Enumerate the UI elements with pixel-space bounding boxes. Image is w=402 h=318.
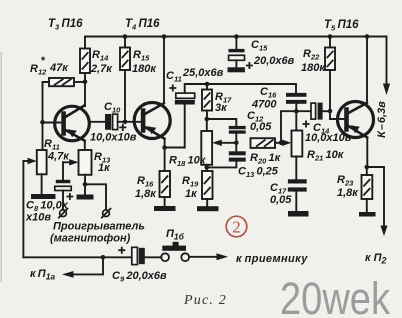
svg-text:20wek: 20wek <box>280 273 390 318</box>
wire R13 bottom to ground node <box>84 175 86 195</box>
wire R12 left to base node <box>43 82 50 122</box>
svg-text:С15: С15 <box>251 39 268 53</box>
wire T5 collector to rail <box>366 37 368 103</box>
svg-text:R21 10к: R21 10к <box>307 149 345 163</box>
wire C13 top to wiper node <box>235 143 237 152</box>
svg-text:R23: R23 <box>337 174 354 188</box>
wire T4 emitter to R16 <box>164 148 166 172</box>
svg-text:4700: 4700 <box>251 99 277 111</box>
node C14/R22 <box>328 109 333 114</box>
wire R18 bottom to node <box>206 165 208 171</box>
node к П1а branch <box>101 255 106 260</box>
node R20/R21 wiper <box>279 141 284 146</box>
wire T5 emitter to node <box>366 138 368 168</box>
wire C11 top to R17/C16 line <box>185 84 296 93</box>
switch П1б <box>161 228 189 261</box>
node C16 bottom / R21 top <box>294 109 299 114</box>
resistor R15 180к <box>120 48 157 76</box>
node T3 base <box>40 120 45 125</box>
resistor R19 1к <box>182 171 213 200</box>
resistor R14 2,7к <box>80 49 113 76</box>
wire C8 bottom to terminal 1 <box>62 191 64 210</box>
node R13 ground branch <box>83 182 88 187</box>
svg-text:0,05: 0,05 <box>270 194 292 206</box>
wire T4 collector to rail <box>163 37 165 104</box>
svg-text:R22: R22 <box>303 48 320 62</box>
node R17/R18/C12 <box>205 117 210 122</box>
scan edge line <box>1 52 2 282</box>
wire C8 top to R13 wiper <box>62 162 64 180</box>
wire node to C12 <box>207 119 237 126</box>
wire node to C13 bottom <box>207 162 237 168</box>
svg-text:2: 2 <box>232 218 241 237</box>
wire T3 emitter to R13 <box>84 141 86 150</box>
svg-text:к П2: к П2 <box>365 252 387 266</box>
svg-text:К – 6,3в: К – 6,3в <box>376 101 388 138</box>
ground bar under R19 <box>197 206 219 211</box>
ground bar under C17 <box>288 211 309 217</box>
wire C15 top to rail <box>235 37 237 49</box>
node T4 emitter <box>162 145 167 150</box>
node: rail junction R22 <box>328 34 333 39</box>
wire R12 right to collector line <box>74 81 85 83</box>
node: rail junction C15 <box>234 34 239 39</box>
wire C9 to switch <box>145 256 162 258</box>
resistor R16 1,8к <box>135 171 170 200</box>
svg-text:R18 10к: R18 10к <box>169 155 207 169</box>
svg-text:Рис. 2: Рис. 2 <box>183 293 227 308</box>
wire C14 right to T5 base line <box>323 110 330 112</box>
svg-text:1к: 1к <box>98 162 111 174</box>
capacitor C13 0,25 <box>229 151 279 179</box>
svg-text:10,0х10в: 10,0х10в <box>90 132 137 144</box>
svg-text:С9 20,0х6в: С9 20,0х6в <box>112 270 167 284</box>
capacitor C9 20,0х6в <box>112 247 167 284</box>
capacitor C8 10,0х10в <box>25 180 73 224</box>
ground bar under R16 <box>154 206 176 211</box>
svg-text:R14: R14 <box>92 49 109 63</box>
wire and arrow к П1а <box>72 257 103 274</box>
transistor T3 П16 <box>43 105 90 140</box>
svg-text:25,0х6в: 25,0х6в <box>182 67 224 79</box>
resistor R20 1к <box>250 138 282 165</box>
svg-text:С10: С10 <box>104 101 121 115</box>
wire R18 top <box>206 119 208 131</box>
wire C15 to ground <box>235 60 237 67</box>
wire R14 to T3 collector <box>84 73 86 106</box>
capacitor C17 0,05 <box>270 179 307 206</box>
svg-text:R16: R16 <box>137 175 154 189</box>
ground bar under R11 <box>31 194 56 199</box>
svg-text:х10в: х10в <box>25 212 51 224</box>
svg-text:R11: R11 <box>44 138 60 152</box>
wire node up to C14 line <box>281 111 311 143</box>
svg-text:1,8к: 1,8к <box>135 188 157 200</box>
capacitor C14 10,0х10в <box>303 103 352 144</box>
svg-text:R20 1к: R20 1к <box>250 152 282 166</box>
wire T3 collector to C10 <box>90 121 106 123</box>
svg-text:Т5 П16: Т5 П16 <box>324 19 359 33</box>
wire R11 bottom to ground <box>41 174 43 194</box>
wire R23 to ground <box>366 199 368 212</box>
capacitor C12 0,05 <box>229 110 272 134</box>
wiper arrow into R11 <box>23 160 28 162</box>
wire R21 top <box>295 111 297 130</box>
svg-text:R19: R19 <box>182 175 199 189</box>
wire C16 bottom to node <box>295 104 297 111</box>
wire R19 to ground <box>206 199 208 206</box>
svg-text:2,7к: 2,7к <box>90 63 113 75</box>
terminal 1 (player) <box>58 208 68 218</box>
svg-text:4,7к: 4,7к <box>47 151 70 163</box>
svg-text:20,0х6в: 20,0х6в <box>253 55 295 67</box>
svg-text:Т4 П16: Т4 П16 <box>125 18 160 32</box>
wiper arrow into R21 <box>282 140 292 146</box>
capacitor C11 25,0х6в <box>166 67 224 105</box>
wire R22 to T5 base <box>330 70 344 119</box>
svg-text:Проигрыватель: Проигрыватель <box>53 221 145 233</box>
wire left net: R11 wiper to bottom rail <box>22 161 24 257</box>
wiper arrow into R18 <box>221 142 236 144</box>
wire R16 to ground <box>164 197 166 206</box>
node: rail junction T5 collector <box>365 34 370 39</box>
ground bar under C15 <box>228 67 245 72</box>
wire R15 top to rail <box>124 37 126 48</box>
resistor R17 3к <box>202 90 232 115</box>
wire C12 to wiper node <box>235 134 237 143</box>
wire emitter node to C11 <box>165 147 185 149</box>
wire and arrow к приемнику <box>189 256 217 258</box>
resistor R12* 47к <box>30 55 74 86</box>
svg-text:С16: С16 <box>260 86 277 100</box>
wire R20 right to C14 node <box>275 142 281 144</box>
transistor T5 П16 <box>338 102 374 138</box>
wire: top supply rail -6.3V <box>85 37 387 85</box>
svg-text:3к: 3к <box>215 102 228 114</box>
svg-text:1,8к: 1,8к <box>337 187 359 199</box>
svg-text:180к: 180к <box>301 62 326 74</box>
wire T4 emitter to node <box>164 139 166 148</box>
terminal 2 (player) <box>101 208 111 218</box>
potentiometer R11 4,7к <box>37 138 70 174</box>
wire C10 to T4 base <box>118 121 141 123</box>
node R12/collector junction <box>83 80 88 85</box>
node wiper/C12/C13 <box>234 141 239 146</box>
svg-text:(магнитофон): (магнитофон) <box>50 233 131 245</box>
potentiometer R13 1к <box>79 150 112 175</box>
wiper arrow from C8 into R13 <box>63 161 70 163</box>
node T5 emitter / R23 / к П2 <box>365 165 370 170</box>
wire R22 top to rail <box>329 37 331 48</box>
arrow to -6,3в <box>383 84 390 96</box>
resistor R23 1,8к <box>337 174 372 199</box>
capacitor C10 10,0х10в <box>90 101 137 144</box>
svg-text:к П1а: к П1а <box>30 268 55 282</box>
ground bar under R13 <box>77 195 94 200</box>
svg-text:Т3 П16: Т3 П16 <box>48 18 83 32</box>
wire C17 to ground <box>295 192 297 211</box>
wire R15 to base line <box>124 70 126 122</box>
svg-text:С11: С11 <box>166 70 182 84</box>
transistor T4 П16 <box>134 103 170 139</box>
node R17 top <box>205 82 210 87</box>
svg-text:1к: 1к <box>185 188 198 200</box>
wire bottom rail to C9 <box>23 256 131 258</box>
svg-text:к приемнику: к приемнику <box>236 253 308 265</box>
node: rail junction R15 <box>123 34 128 39</box>
capacitor C15 20,0х6в <box>229 39 295 69</box>
wire to player terminal 2 <box>85 184 106 210</box>
wire R17 bottom to node <box>206 111 208 120</box>
svg-text:47к: 47к <box>49 62 69 74</box>
wire R21 bottom to C17 <box>295 157 297 180</box>
node R15 bottom junction <box>123 120 128 125</box>
node: rail junction T4 collector <box>162 34 167 39</box>
ground bar under R23 <box>359 212 376 217</box>
svg-text:0,05: 0,05 <box>250 121 272 133</box>
resistor R22 180к <box>301 48 335 75</box>
svg-text:180к: 180к <box>132 63 157 75</box>
wire base node down to R11 <box>42 122 44 150</box>
wire and arrow к П2 <box>367 167 384 227</box>
svg-text:R15: R15 <box>133 49 150 63</box>
svg-text:С13 0,25: С13 0,25 <box>238 166 279 180</box>
red stamp circled 2 <box>226 216 247 237</box>
wire emitter node to R23 <box>366 167 368 175</box>
capacitor C16 4700 <box>251 86 307 111</box>
node R18 bottom / R19 / C13 <box>205 165 210 170</box>
svg-text:П1б: П1б <box>166 228 185 242</box>
wire C11 bottom to emitter node <box>184 105 186 148</box>
wire R17 top <box>206 84 208 90</box>
svg-text:*: * <box>41 55 46 67</box>
potentiometer R21 10к <box>292 131 345 163</box>
potentiometer R18 10к (volume) <box>169 131 212 168</box>
